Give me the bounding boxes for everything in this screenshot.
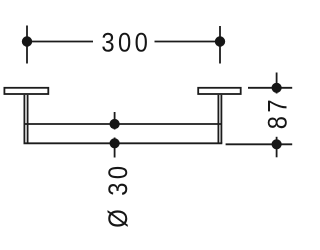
- dimension line 87 top segment: [276, 73, 278, 94]
- leader line dia30 lower segment: [114, 138, 116, 158]
- svg-text:87: 87: [263, 96, 293, 129]
- dimension line 87 bottom segment: [276, 137, 278, 158]
- post right (right edge): [220, 95, 222, 143]
- bar bottom edge: [24, 142, 223, 144]
- dim dot 87 top: [272, 83, 282, 93]
- post right (left edge): [217, 95, 219, 143]
- tick line 87 top: [248, 87, 292, 89]
- dimension line 300 right segment: [155, 41, 221, 43]
- dia30 dot top: [110, 119, 120, 129]
- dia30 dot bottom: [110, 138, 120, 148]
- bar top edge: [24, 123, 221, 125]
- post left (left edge): [23, 95, 25, 143]
- dim dot 87 bottom: [272, 139, 282, 149]
- wall flange left: [4, 88, 48, 94]
- tick line 87 bottom: [226, 143, 293, 145]
- post left (right edge): [27, 95, 29, 143]
- wall flange right: [198, 88, 241, 94]
- extension line left (300 dim): [26, 26, 28, 64]
- dimension line 300 left segment: [27, 41, 93, 43]
- extension line right (300 dim): [219, 26, 221, 64]
- svg-text:Ø 30: Ø 30: [104, 162, 134, 227]
- svg-text:300: 300: [101, 28, 151, 58]
- leader line dia30 upper segment: [114, 112, 116, 130]
- dim dot 300 left: [22, 36, 32, 46]
- dim dot 300 right: [215, 36, 225, 46]
